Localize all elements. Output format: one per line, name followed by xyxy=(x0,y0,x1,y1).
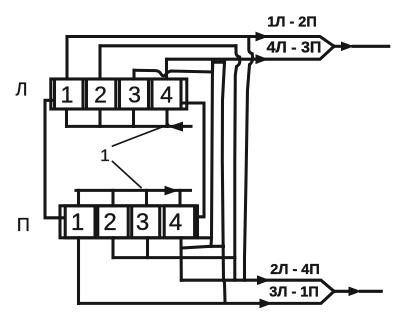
svg-text:3Л - 1П: 3Л - 1П xyxy=(269,284,319,300)
wire 4L right-side link xyxy=(181,103,204,217)
svg-text:2Л - 4П: 2Л - 4П xyxy=(270,262,320,278)
contact block row L: outer frame xyxy=(51,79,187,109)
wire 2L stub up xyxy=(98,46,101,79)
brush bus row L bottom line xyxy=(67,125,192,128)
arrow on B1 xyxy=(257,275,270,285)
svg-text:Л: Л xyxy=(16,80,28,100)
brush row P divider d xyxy=(178,190,181,205)
brush row L divider d xyxy=(165,109,168,126)
left link wire L-row to P-row xyxy=(45,100,63,218)
wire 2L horizontal xyxy=(100,44,236,47)
wire T2 (4L-3P) horizontal xyxy=(167,46,335,59)
svg-text:1Л - 2П: 1Л - 2П xyxy=(267,14,317,30)
arrow output 2 xyxy=(349,287,362,297)
svg-text:1: 1 xyxy=(61,82,74,108)
svg-text:1: 1 xyxy=(100,146,109,165)
contact 4L box xyxy=(152,79,181,109)
svg-text:4Л - 3П: 4Л - 3П xyxy=(267,39,322,56)
svg-text:4: 4 xyxy=(160,82,173,108)
svg-text:2: 2 xyxy=(103,209,116,236)
wire 1L stub up xyxy=(65,37,68,80)
contact 3P box xyxy=(132,206,160,238)
wire 4P right branch to column C xyxy=(182,246,224,248)
wire 3L stub up xyxy=(132,70,135,79)
wire 4P stub down to B1 xyxy=(179,238,182,280)
wire W1 2P horizontal to column D xyxy=(113,256,235,259)
arrow output 1 xyxy=(341,42,354,52)
wire 3L horizontal with dip under 4L stub xyxy=(134,70,213,76)
column B down from jog xyxy=(211,62,213,246)
svg-text:П: П xyxy=(17,215,30,235)
wire B1 (2L-4P) horizontal xyxy=(181,280,334,291)
wire 2P stub down xyxy=(111,238,114,258)
contact block row P: outer frame xyxy=(60,206,198,238)
brush row L divider b xyxy=(98,109,101,126)
column E riser 2P from T1 with hop over T2 xyxy=(245,37,253,281)
wire T1 (1L-2P) horizontal xyxy=(67,37,334,47)
contact 1P box xyxy=(65,206,95,238)
output 2 tail after merge xyxy=(334,290,349,293)
wire 3L jog under T2 to column C xyxy=(213,62,225,72)
row P outer bottom extension to column B xyxy=(198,236,212,239)
wire 2L descent column D with hop over T2 xyxy=(235,46,240,280)
contact 4P box xyxy=(164,206,194,238)
svg-text:2: 2 xyxy=(94,82,107,108)
wire 4L stub up xyxy=(165,59,168,79)
brush row P divider c xyxy=(145,190,148,205)
arrow on row P brush bus (points right) xyxy=(165,186,179,196)
arrow on T1 xyxy=(256,32,269,42)
brush row L divider c xyxy=(132,109,135,126)
pointer line from label 1 to row L arrow xyxy=(113,125,169,147)
brush row P divider b xyxy=(111,190,114,205)
arrow on row L brush bus (points left) xyxy=(168,122,183,132)
pointer line from label 1 to row P arrow xyxy=(113,162,142,188)
output 2 line after arrow xyxy=(361,290,382,293)
svg-text:3: 3 xyxy=(136,209,149,236)
svg-text:3: 3 xyxy=(128,82,141,108)
arrow on B2 xyxy=(260,299,273,309)
wire B2 (3L-1P) horizontal xyxy=(79,291,335,303)
column C down to B1 and B2 xyxy=(222,62,225,302)
brush row P divider a xyxy=(77,190,80,205)
contact 2L box xyxy=(87,79,116,109)
wire 3P stub down to W1 xyxy=(146,238,149,258)
output 1 tail after merge xyxy=(334,45,342,48)
wire 1P stub down xyxy=(77,238,80,304)
contact 2P box xyxy=(98,206,128,238)
svg-text:4: 4 xyxy=(169,209,182,236)
brush row L divider a xyxy=(65,109,68,126)
contact 3L box xyxy=(120,79,149,109)
output 1 line after arrow xyxy=(353,45,389,48)
brush bus row P top line xyxy=(76,189,191,192)
svg-text:1: 1 xyxy=(71,209,84,236)
contact 1L box xyxy=(55,79,84,109)
arrow on T2 xyxy=(256,54,269,64)
